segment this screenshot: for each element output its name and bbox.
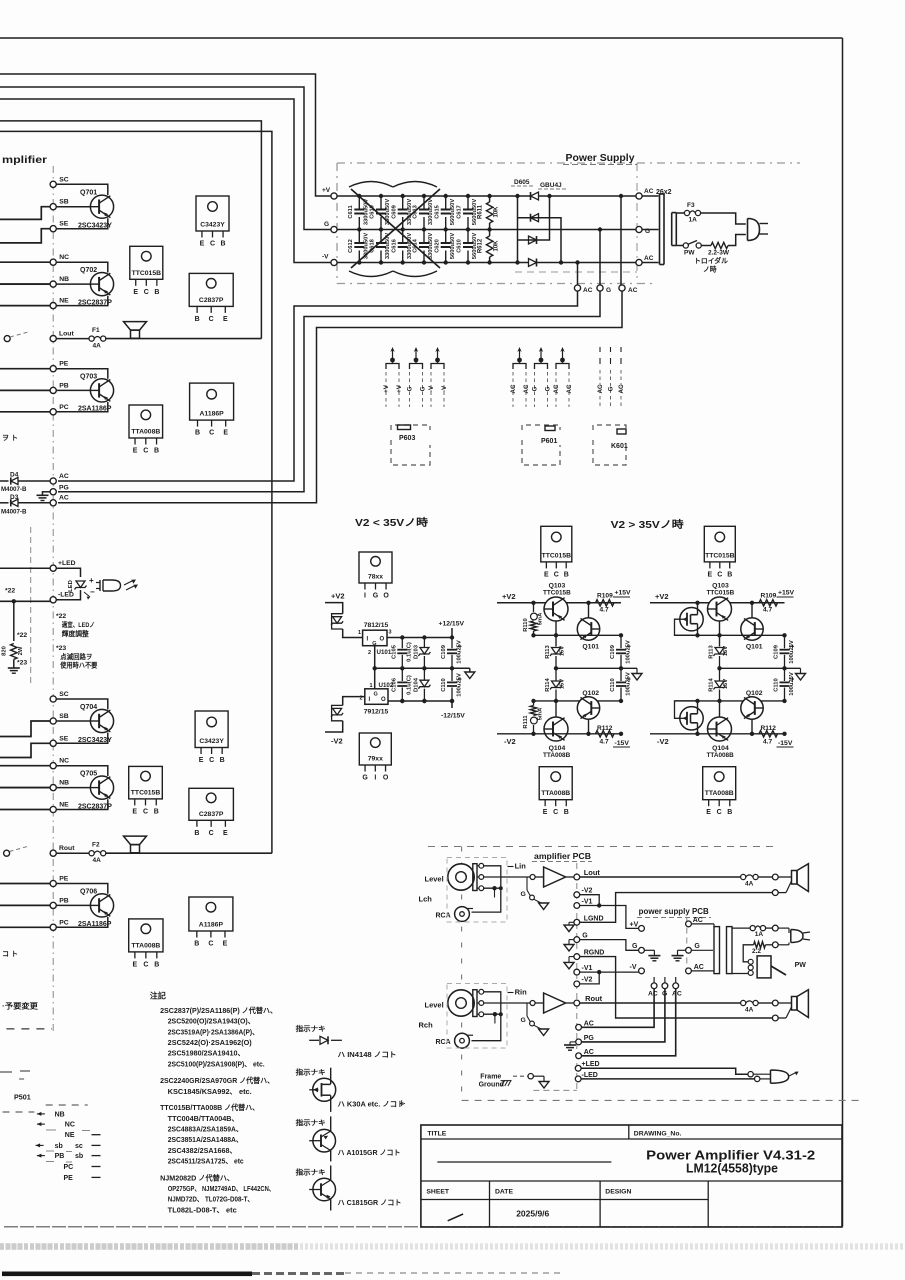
svg-text:2SC4382/2SA1668、: 2SC4382/2SA1668、 xyxy=(168,1146,237,1155)
transistor Q102 reg-a xyxy=(577,690,599,719)
P501 inner dashes xyxy=(46,1130,90,1162)
svg-text:TTC004B/TTA004B、: TTC004B/TTA004B、 xyxy=(168,1114,239,1123)
resistor R111 5mA reg-a xyxy=(523,699,544,736)
speaker R xyxy=(124,836,147,845)
svg-text:Level: Level xyxy=(425,1001,444,1010)
wire F1 to corner xyxy=(106,338,262,340)
speaker L xyxy=(124,322,147,331)
terminal -V2 R xyxy=(574,981,580,987)
note NPN C1815GR xyxy=(309,1166,335,1211)
svg-text:100u25V: 100u25V xyxy=(457,673,463,697)
svg-text:TITLE: TITLE xyxy=(427,1131,446,1138)
label GBU4J underline xyxy=(538,188,566,190)
svg-text:3: 3 xyxy=(389,630,392,636)
transformer bars xyxy=(714,927,732,974)
svg-text:*23: *23 xyxy=(56,645,66,652)
svg-text:amplifier PCB: amplifier PCB xyxy=(534,852,591,861)
gnd arrow reg-b xyxy=(796,668,806,680)
svg-text:1A: 1A xyxy=(689,217,698,224)
svg-text:C: C xyxy=(209,430,214,437)
terminal Rout xyxy=(50,850,56,856)
package A1186P ch2 xyxy=(189,897,233,931)
svg-text:2SC5100(P)/2SA1908(P)、 etc.: 2SC5100(P)/2SA1908(P)、 etc. xyxy=(168,1059,265,1068)
svg-text:mplifier: mplifier xyxy=(2,154,47,166)
svg-text:E: E xyxy=(200,241,205,248)
svg-text:E: E xyxy=(133,289,138,296)
wire G ps2 to xfmr xyxy=(691,949,713,951)
svg-text:B: B xyxy=(220,757,225,764)
svg-text:4A: 4A xyxy=(93,857,102,864)
svg-text:M4007-B: M4007-B xyxy=(1,486,27,493)
svg-text:LM12(4558)type: LM12(4558)type xyxy=(686,1162,778,1176)
gnd arrow RGND xyxy=(564,957,574,969)
svg-text:Q101: Q101 xyxy=(746,643,763,650)
power supply dash-dot border left xyxy=(336,163,338,284)
svg-text:4A: 4A xyxy=(93,343,102,350)
wire node to plug xyxy=(778,927,789,929)
svg-text:+15V: +15V xyxy=(615,590,632,597)
LED lamp pcb xyxy=(753,1070,798,1083)
svg-text:2SA1186P: 2SA1186P xyxy=(78,406,112,413)
wire -V2 jumper L xyxy=(580,895,602,908)
svg-text:-V: -V xyxy=(441,385,448,392)
svg-text:0.1u(C): 0.1u(C) xyxy=(407,675,413,695)
wire AC1 return xyxy=(58,288,578,481)
diode D605c xyxy=(529,236,537,244)
svg-text:10K: 10K xyxy=(494,206,500,218)
wire AC ps2 to xfmr xyxy=(691,970,714,972)
switch PW pcb xyxy=(748,956,786,978)
svg-text:Q703: Q703 xyxy=(80,374,97,381)
package C3423Y ch1 xyxy=(196,196,229,231)
note diode 1N4148 xyxy=(309,1036,342,1044)
svg-text:C: C xyxy=(210,241,215,248)
wire *22 node xyxy=(0,599,50,641)
capacitor C110 reg-b xyxy=(774,668,796,703)
svg-text:指示ナキ: 指示ナキ xyxy=(296,1118,326,1127)
zener R114 15V reg-a xyxy=(545,668,566,701)
svg-text:OP275GP、 NJM2749AD、 LF442CN、: OP275GP、 NJM2749AD、 LF442CN、 xyxy=(168,1184,275,1193)
wire AC top to bracket xyxy=(642,195,658,197)
node spk R - xyxy=(772,1015,778,1021)
svg-text:4.7: 4.7 xyxy=(600,739,609,746)
svg-text:+15V: +15V xyxy=(778,590,795,597)
svg-text:C109: C109 xyxy=(441,644,447,659)
wire +V2 rail reg-a xyxy=(497,602,589,604)
svg-text:C611: C611 xyxy=(348,205,354,218)
label Power Supply underline xyxy=(563,164,637,166)
svg-text:R113: R113 xyxy=(709,644,715,658)
svg-text:NJMD72D、 TL072G-D08-T、: NJMD72D、 TL072G-D08-T、 xyxy=(168,1195,254,1204)
svg-text:NC: NC xyxy=(59,254,69,261)
wire G ps to gnd xyxy=(644,950,660,961)
svg-text:C: C xyxy=(717,809,722,816)
terminal +LED pcb xyxy=(575,1065,581,1071)
wire -V2 jumper R xyxy=(580,970,602,984)
svg-text:C: C xyxy=(209,830,214,837)
svg-text:10K: 10K xyxy=(494,240,500,252)
P501 pin sb xyxy=(36,1143,101,1150)
wire -V2 rail reg-a xyxy=(497,733,621,735)
bridge row2 junction xyxy=(559,260,563,264)
svg-text:AC: AC xyxy=(644,188,654,195)
svg-text:NC: NC xyxy=(59,758,69,765)
pot Rch terminal bus xyxy=(472,992,503,1041)
transistor Q701 group (SC/SB/SE) xyxy=(50,176,114,231)
zener R114 15V reg-b xyxy=(709,668,730,701)
svg-text:C612: C612 xyxy=(348,239,354,253)
wire Lout run pcb xyxy=(580,876,741,878)
svg-text:F1: F1 xyxy=(92,327,100,334)
svg-text:-LED: -LED xyxy=(582,1072,598,1079)
svg-text:E: E xyxy=(706,809,711,816)
P501 pin PE xyxy=(64,1175,101,1182)
label D605 underline xyxy=(511,185,534,187)
svg-text:AC: AC xyxy=(583,287,593,294)
fuse F2 xyxy=(89,851,94,856)
sheet slash mark xyxy=(448,1214,463,1221)
terminal -V1 L xyxy=(574,903,580,909)
gnd arrow reg-a xyxy=(632,668,642,680)
wire G drop to amp PG xyxy=(582,989,665,1042)
svg-text:R111: R111 xyxy=(523,715,529,729)
svg-text:コ ト: コ ト xyxy=(2,950,18,958)
wire mid row reg-b xyxy=(675,633,787,637)
wire -LED xyxy=(56,598,80,600)
transistor Q702 group (NC/NB/NE) xyxy=(50,254,114,309)
gnd arrow LGND xyxy=(564,922,574,931)
svg-text:AC: AC xyxy=(566,384,573,393)
svg-text:R113: R113 xyxy=(545,644,551,658)
svg-text:sb: sb xyxy=(75,1153,83,1160)
svg-text:C3423Y: C3423Y xyxy=(200,222,225,229)
wire Q104 collector reg-a xyxy=(555,701,557,717)
terminal -V ps xyxy=(639,968,645,974)
svg-text:C: C xyxy=(209,316,214,323)
svg-text:R110: R110 xyxy=(523,618,529,632)
svg-text:点滅回路ヲ: 点滅回路ヲ xyxy=(60,652,92,661)
wire +V2 into bypass xyxy=(325,603,343,614)
svg-text:2SC3423Y: 2SC3423Y xyxy=(78,223,112,230)
rca jack Lch xyxy=(436,907,474,922)
svg-text:RCA: RCA xyxy=(436,1039,451,1046)
svg-text:E: E xyxy=(223,430,228,437)
wire -LED pcb xyxy=(581,1078,754,1080)
svg-text:NE: NE xyxy=(65,1132,75,1139)
capacitor C615/C620 xyxy=(434,194,456,265)
svg-text:DRAWING_No.: DRAWING_No. xyxy=(634,1131,682,1138)
svg-text:NB: NB xyxy=(59,276,69,283)
svg-text:sb: sb xyxy=(55,1143,63,1150)
left input wires PE/PB/PC ch2 xyxy=(0,884,50,928)
svg-text:+V2: +V2 xyxy=(331,592,345,601)
wire plug bottom xyxy=(778,944,789,946)
svg-text:Q704: Q704 xyxy=(80,704,97,711)
wire bypass to U101 xyxy=(343,629,363,638)
svg-text:B: B xyxy=(154,961,159,968)
wire Lout to F1 xyxy=(56,338,89,340)
svg-text:C109: C109 xyxy=(774,644,780,659)
wire U101 gnd xyxy=(373,646,377,689)
wire Rout run xyxy=(0,131,272,853)
outer dashed box bottom xyxy=(462,1099,860,1101)
svg-text:B: B xyxy=(564,571,569,578)
wire Rout to F2 xyxy=(56,852,89,854)
svg-text:100u25V: 100u25V xyxy=(789,640,795,664)
svg-text:79xx: 79xx xyxy=(368,756,383,763)
power supply dash-dot border top xyxy=(337,162,800,164)
svg-text:-V: -V xyxy=(428,385,435,392)
svg-text:C2837P: C2837P xyxy=(199,811,224,818)
node LED - xyxy=(755,1076,760,1081)
diode LED D101 xyxy=(68,580,90,599)
transistor Q104 reg-b xyxy=(707,717,735,759)
svg-text:+V: +V xyxy=(383,384,390,393)
svg-text:2SC5242(O)·2SA1962(O): 2SC5242(O)·2SA1962(O) xyxy=(168,1038,253,1047)
svg-text:Level: Level xyxy=(425,875,444,884)
svg-text:RCA: RCA xyxy=(436,913,451,920)
svg-text:PB: PB xyxy=(59,897,69,904)
fuse 4A R xyxy=(741,1000,746,1005)
svg-text:Power Supply: Power Supply xyxy=(566,152,635,164)
svg-text:Ground: Ground xyxy=(479,1082,504,1089)
terminal AC drop1 xyxy=(651,977,657,989)
node spk L - xyxy=(772,890,778,896)
speaker box R xyxy=(792,990,809,1018)
svg-text:E: E xyxy=(133,448,138,455)
svg-text:TTC015B: TTC015B xyxy=(707,590,735,597)
wire Rout return xyxy=(580,957,773,1018)
connector P601 pin pair 1 (AC/AC) xyxy=(510,347,530,407)
package TTA008B ch1 xyxy=(129,405,163,438)
svg-text:Lout: Lout xyxy=(584,868,601,877)
svg-text:AC: AC xyxy=(597,384,604,393)
label Lin tick xyxy=(508,866,514,868)
fuse 1A pcb xyxy=(750,926,755,931)
svg-text:Lin: Lin xyxy=(515,862,527,871)
package 79xx xyxy=(359,733,391,765)
svg-text:2SC3851A/2SA1488A、: 2SC3851A/2SA1488A、 xyxy=(168,1135,243,1144)
regulator U102 7912/15 xyxy=(360,682,394,716)
terminal RGND xyxy=(574,954,580,960)
svg-text:·予要変更: ·予要変更 xyxy=(2,1002,39,1011)
svg-text:TTA008B: TTA008B xyxy=(131,429,160,436)
connector K601 pins xyxy=(597,347,625,407)
svg-text:15V: 15V xyxy=(560,679,566,689)
svg-text:SE: SE xyxy=(59,221,69,228)
speaker box L xyxy=(792,864,809,892)
svg-text:+LED: +LED xyxy=(58,560,76,567)
svg-text:AC: AC xyxy=(672,991,682,998)
svg-text:P501: P501 xyxy=(14,1093,31,1102)
svg-text:V2 < 35Vノ時: V2 < 35Vノ時 xyxy=(355,516,428,529)
svg-text:2SC5200(O)/2SA1943(O)、: 2SC5200(O)/2SA1943(O)、 xyxy=(168,1017,255,1026)
svg-text:PG: PG xyxy=(59,485,69,492)
wire bracket to PW xyxy=(676,245,683,247)
wire -V1R to -V xyxy=(580,971,639,973)
wire Lin xyxy=(484,876,530,878)
svg-text:G: G xyxy=(324,221,329,228)
wire Lin to opamp xyxy=(535,876,544,878)
svg-text:-LED: -LED xyxy=(58,592,74,599)
svg-text:PE: PE xyxy=(64,1175,74,1182)
svg-text:3300u50V: 3300u50V xyxy=(428,233,434,259)
potentiometer Level Lch xyxy=(419,863,484,903)
terminal G ps-pcb xyxy=(639,947,645,953)
svg-text:2SC4511/2SA1725、 etc: 2SC4511/2SA1725、 etc xyxy=(168,1157,244,1166)
title block mid line xyxy=(421,1180,842,1182)
svg-text:7912/15: 7912/15 xyxy=(364,709,389,716)
svg-text:-12/15V: -12/15V xyxy=(441,713,465,720)
wire -12/15V stub xyxy=(451,701,453,708)
wire Q102 collector reg-a xyxy=(586,719,590,736)
svg-text:SB: SB xyxy=(59,713,69,720)
wire Q101 collector reg-b xyxy=(750,601,754,618)
svg-text:G: G xyxy=(374,692,378,698)
svg-text:7812/15: 7812/15 xyxy=(364,622,389,629)
svg-text:C: C xyxy=(143,961,148,968)
terminal -LED pcb xyxy=(575,1076,581,1082)
terminal Lout xyxy=(50,336,56,342)
svg-text:G: G xyxy=(373,593,379,600)
svg-text:C110: C110 xyxy=(610,678,616,692)
svg-text:100u25V: 100u25V xyxy=(789,672,795,696)
terminal AC lower-2 xyxy=(619,285,625,291)
svg-text:4.7: 4.7 xyxy=(600,607,609,614)
left input wire SE ch1 xyxy=(0,229,50,243)
svg-text:輝度調整: 輝度調整 xyxy=(61,629,89,638)
svg-text:ハ IN4148 ノコト: ハ IN4148 ノコト xyxy=(338,1050,397,1059)
connector P603 pin pair 2 (G/G) xyxy=(407,347,427,407)
wire PW to R xyxy=(701,245,711,247)
connector P601 outline xyxy=(522,425,560,465)
P501 pin NE xyxy=(65,1132,101,1139)
svg-text:C2837P: C2837P xyxy=(199,297,224,304)
transformer T601 winding arcs xyxy=(349,182,437,277)
capacitor C109 reg-a xyxy=(610,635,632,668)
amplifier PCB dashed boundary xyxy=(576,863,578,1090)
svg-text:-V: -V xyxy=(322,254,329,261)
left input wires NC/NB/NE ch1 xyxy=(0,262,50,305)
G stub R xyxy=(521,1003,549,1036)
label Rin tick xyxy=(508,992,514,994)
svg-text:+V: +V xyxy=(396,384,403,393)
title signature line xyxy=(437,1161,611,1163)
capacitor C609/C616 xyxy=(391,194,413,265)
wire fuse to spk R xyxy=(758,1002,772,1004)
svg-text:G: G xyxy=(545,386,552,391)
svg-text:O: O xyxy=(383,593,389,600)
node Lin xyxy=(530,875,535,880)
terminal -LED xyxy=(50,597,56,603)
svg-text:R112: R112 xyxy=(597,725,613,732)
svg-text:K601: K601 xyxy=(611,443,628,450)
capacitor C106 xyxy=(392,668,413,703)
wire -V1 to +V xyxy=(580,906,639,929)
wire mid row reg-a xyxy=(534,633,624,637)
svg-text:ハ K30A etc. ノコト: ハ K30A etc. ノコト xyxy=(338,1100,405,1109)
svg-text:C105: C105 xyxy=(392,644,398,659)
connector P603 outline xyxy=(391,425,430,465)
bleeder resistor R612 10K xyxy=(478,230,500,265)
svg-text:C: C xyxy=(554,571,559,578)
svg-text:I: I xyxy=(364,593,366,600)
svg-text:C: C xyxy=(143,808,148,815)
left input wire SB ch2 xyxy=(0,721,50,737)
svg-text:TTC015B: TTC015B xyxy=(131,789,161,796)
svg-text:NE: NE xyxy=(59,298,69,305)
terminal G right xyxy=(636,226,642,232)
svg-text:B: B xyxy=(154,448,159,455)
terminal -V1 R xyxy=(574,969,580,975)
svg-text:B: B xyxy=(154,289,159,296)
svg-text:+LED: +LED xyxy=(582,1061,600,1068)
aux dash line xyxy=(30,527,32,683)
connector P601 pin pair 3 (AC/AC) xyxy=(553,347,573,407)
wire Q104 collector reg-b xyxy=(719,701,721,717)
svg-text:78xx: 78xx xyxy=(368,574,383,581)
terminal +LED xyxy=(50,565,56,571)
svg-text:注記: 注記 xyxy=(150,991,166,1001)
wire G to bracket xyxy=(642,229,658,231)
svg-text:C: C xyxy=(717,571,722,578)
capacitor C613/C614 xyxy=(413,194,435,265)
connector P601 pin pair 2 (G/G) xyxy=(532,347,552,407)
gnd arrow G mid xyxy=(564,940,574,951)
terminal LGND xyxy=(574,919,580,925)
transistor Q703 group (PE/PB/PC) xyxy=(50,361,114,415)
package TTC015B ch1 xyxy=(130,246,163,279)
gnd PG amp-pcb xyxy=(564,1042,576,1050)
wire AC bottom to bracket xyxy=(642,262,658,264)
mains plug xyxy=(748,219,760,241)
svg-text:*22: *22 xyxy=(56,613,66,620)
svg-text:B: B xyxy=(564,809,569,816)
terminal AC drop2 xyxy=(673,977,679,989)
svg-text:G: G xyxy=(694,943,700,950)
note FET K30A xyxy=(309,1068,336,1112)
svg-text:TTC015B: TTC015B xyxy=(542,552,572,559)
P501 dashes top xyxy=(46,1104,88,1106)
wire R2.2 to switch xyxy=(743,945,753,962)
svg-text:AC: AC xyxy=(584,1020,594,1027)
svg-text:-15V: -15V xyxy=(778,740,793,747)
svg-text:Lout: Lout xyxy=(59,331,74,338)
left input wires PE/PB/PC ch1 xyxy=(0,369,50,412)
fuse F3 xyxy=(684,210,689,215)
title block header band line xyxy=(421,1138,842,1140)
transistor Q704 group (SC/SB/SE) xyxy=(50,691,114,746)
terminal AC amp-pcb 2 xyxy=(576,1053,582,1059)
fuse F1 xyxy=(89,336,94,341)
transistor Q102 reg-b xyxy=(741,690,763,719)
resistor R110 5mA reg-a xyxy=(523,601,544,638)
wire xfmr to switch bottom xyxy=(732,973,748,975)
dashed box Rch xyxy=(447,984,507,1049)
label power supply PCB underline xyxy=(637,917,711,919)
svg-text:AC: AC xyxy=(648,991,658,998)
wire G mid to PS xyxy=(580,940,639,951)
svg-text:V2 > 35Vノ時: V2 > 35Vノ時 xyxy=(611,518,684,531)
svg-text:G: G xyxy=(362,775,368,782)
svg-text:E: E xyxy=(199,757,204,764)
svg-text:−: − xyxy=(90,588,95,597)
svg-text:TTA008B: TTA008B xyxy=(707,752,735,759)
svg-text:2: 2 xyxy=(368,650,371,656)
svg-text:Lch: Lch xyxy=(419,895,433,904)
svg-text:Rch: Rch xyxy=(419,1021,434,1030)
scan speckle band xyxy=(0,1243,905,1250)
